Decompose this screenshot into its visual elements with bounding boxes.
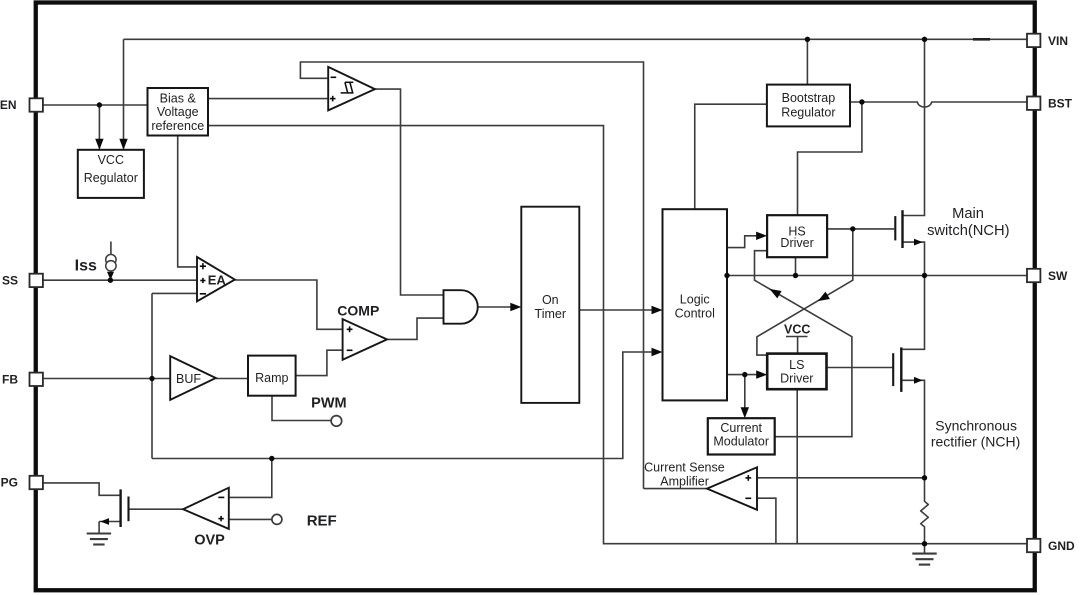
svg-text:BUF: BUF — [176, 372, 201, 386]
svg-text:PG: PG — [1, 476, 18, 490]
svg-text:On: On — [542, 293, 559, 307]
svg-text:GND: GND — [1048, 539, 1075, 553]
svg-text:Driver: Driver — [780, 371, 813, 385]
svg-text:LS: LS — [789, 358, 804, 372]
svg-text:rectifier (NCH): rectifier (NCH) — [931, 433, 1020, 449]
svg-text:BST: BST — [1048, 97, 1073, 111]
svg-text:REF: REF — [307, 513, 337, 530]
svg-text:Main: Main — [952, 206, 984, 222]
svg-text:reference: reference — [151, 119, 204, 133]
svg-text:Modulator: Modulator — [713, 435, 769, 449]
svg-text:EA: EA — [208, 272, 227, 287]
svg-text:Synchronous: Synchronous — [935, 418, 1017, 434]
svg-text:VCC: VCC — [784, 323, 810, 337]
svg-text:Bias &: Bias & — [160, 92, 197, 106]
svg-text:Regulator: Regulator — [781, 105, 835, 119]
svg-text:Logic: Logic — [680, 292, 710, 306]
svg-text:VCC: VCC — [98, 153, 124, 167]
svg-text:Bootstrap: Bootstrap — [782, 91, 836, 105]
svg-text:Control: Control — [675, 306, 715, 320]
svg-text:Driver: Driver — [780, 236, 813, 250]
svg-text:SW: SW — [1048, 269, 1068, 283]
svg-text:Timer: Timer — [535, 307, 566, 321]
svg-text:Iss: Iss — [75, 257, 97, 274]
svg-text:Current Sense: Current Sense — [644, 460, 725, 474]
svg-text:SS: SS — [2, 274, 18, 288]
svg-text:PWM: PWM — [311, 396, 346, 412]
svg-text:Amplifier: Amplifier — [660, 474, 709, 488]
svg-text:COMP: COMP — [337, 302, 379, 318]
svg-text:Current: Current — [720, 421, 762, 435]
svg-text:Ramp: Ramp — [255, 371, 288, 385]
svg-text:switch(NCH): switch(NCH) — [927, 223, 1009, 239]
svg-text:FB: FB — [2, 373, 18, 387]
svg-text:Regulator: Regulator — [84, 171, 138, 185]
svg-text:EN: EN — [0, 98, 17, 112]
svg-text:Voltage: Voltage — [157, 105, 199, 119]
svg-text:VIN: VIN — [1048, 34, 1068, 48]
svg-text:OVP: OVP — [194, 532, 225, 548]
